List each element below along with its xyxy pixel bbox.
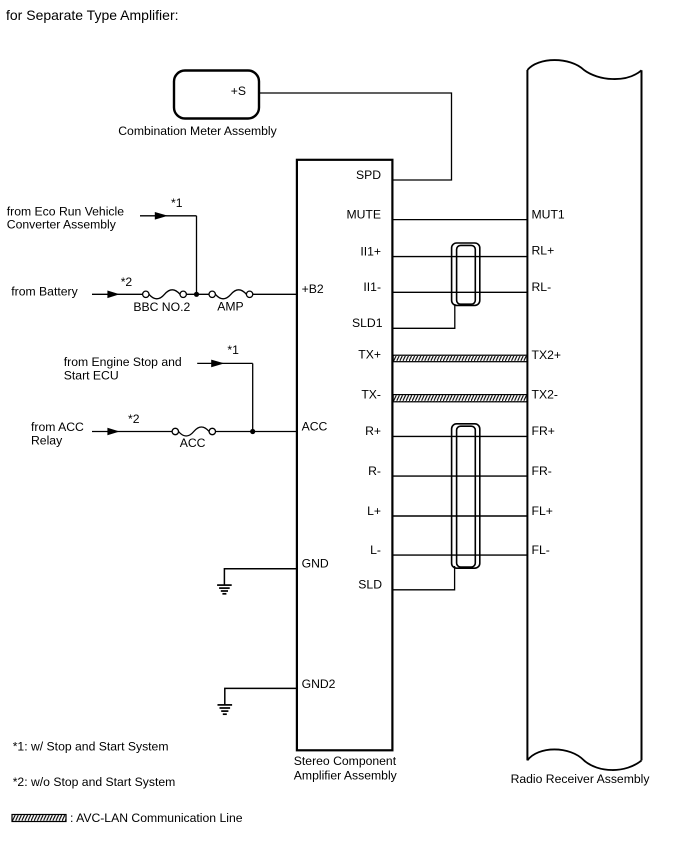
svg-text:+S: +S: [231, 84, 246, 98]
fuse ACC: [172, 427, 215, 436]
svg-text:R+: R+: [365, 424, 381, 438]
svg-text:TX+: TX+: [358, 348, 381, 362]
svg-text:FR+: FR+: [532, 424, 555, 438]
svg-text:*1: w/ Stop and Start System: *1: w/ Stop and Start System: [13, 740, 169, 754]
svg-text:Start ECU: Start ECU: [64, 369, 119, 383]
svg-text:*2: w/o Stop and Start System: *2: w/o Stop and Start System: [13, 775, 176, 789]
wire SLD to shield S2: [393, 566, 455, 590]
ground symbol (GND2): [218, 705, 233, 714]
svg-text:FL+: FL+: [532, 504, 553, 518]
svg-text:SLD1: SLD1: [352, 316, 383, 330]
wire MUTE to MUT1: [393, 219, 527, 221]
arrow from eco run converter: [140, 215, 197, 217]
svg-text:II1+: II1+: [360, 244, 381, 258]
svg-text:Combination Meter Assembly: Combination Meter Assembly: [118, 124, 277, 138]
combination meter assembly box: [174, 71, 259, 119]
svg-text:GND2: GND2: [302, 677, 336, 691]
svg-text:: AVC-LAN Communication Line: : AVC-LAN Communication Line: [70, 811, 243, 825]
svg-text:RL-: RL-: [532, 280, 552, 294]
svg-text:GND: GND: [302, 557, 329, 571]
wire between fuses: [186, 293, 209, 295]
shield S2 around R/L pairs: [452, 424, 480, 568]
wire R- to FR-: [393, 475, 527, 477]
svg-text:BBC NO.2: BBC NO.2: [133, 300, 190, 314]
svg-text:*1: *1: [171, 196, 183, 210]
wire *1 drop to ACC node: [252, 363, 254, 431]
wire L+ to FL+: [393, 515, 527, 517]
stereo component amplifier assembly box U1: [297, 160, 393, 751]
AVC-LAN line TX- to TX2-: [393, 395, 527, 402]
svg-text:FR-: FR-: [532, 464, 552, 478]
node junction at *1/+B2: [194, 292, 199, 297]
wire L- to FL-: [393, 554, 527, 556]
wire SLD1 to shield S1: [393, 304, 455, 328]
svg-text:TX2+: TX2+: [532, 348, 561, 362]
svg-text:+B2: +B2: [302, 282, 324, 296]
wire GND to ground: [224, 569, 297, 585]
svg-text:L+: L+: [367, 504, 381, 518]
wire ACC fuse to ACC pin: [216, 431, 297, 433]
svg-text:II1-: II1-: [363, 280, 381, 294]
svg-text:SLD: SLD: [358, 578, 382, 592]
svg-text:from ACC: from ACC: [31, 420, 84, 434]
svg-text:FL-: FL-: [532, 543, 550, 557]
svg-text:from Battery: from Battery: [11, 285, 78, 299]
node junction at *1/ACC: [250, 429, 255, 434]
svg-text:Amplifier Assembly: Amplifier Assembly: [294, 769, 398, 783]
wire R+ to FR+: [393, 435, 527, 437]
svg-text:from Engine Stop and: from Engine Stop and: [64, 355, 182, 369]
svg-text:*1: *1: [227, 343, 239, 357]
fuse AMP: [209, 290, 253, 299]
svg-text:TX-: TX-: [361, 387, 381, 401]
svg-text:ACC: ACC: [180, 436, 206, 450]
wire AMP fuse to +B2: [253, 293, 297, 295]
arrow from engine stop and start ECU: [197, 362, 253, 364]
shield S1 around II1 pair: [452, 243, 480, 305]
svg-text:Radio Receiver Assembly: Radio Receiver Assembly: [511, 772, 651, 786]
svg-text:MUTE: MUTE: [346, 207, 381, 221]
AVC-LAN line TX+ to TX2+: [393, 355, 527, 362]
svg-text:from Eco Run Vehicle: from Eco Run Vehicle: [7, 205, 124, 219]
svg-text:RL+: RL+: [532, 244, 555, 258]
wire +S to SPD: [259, 93, 451, 180]
svg-text:MUT1: MUT1: [532, 207, 565, 221]
arrow from ACC relay: [92, 431, 172, 433]
svg-text:ACC: ACC: [302, 419, 328, 433]
arrow from battery: [92, 293, 143, 295]
wire II1- to RL-: [393, 291, 527, 293]
svg-text:TX2-: TX2-: [532, 388, 558, 402]
wire GND2 to ground: [225, 688, 297, 704]
svg-text:L-: L-: [370, 543, 381, 557]
wire *1 drop to +B2 node: [196, 216, 198, 294]
svg-text:*2: *2: [121, 275, 133, 289]
svg-text:Stereo Component: Stereo Component: [294, 754, 397, 768]
svg-text:*2: *2: [128, 412, 140, 426]
svg-text:Converter Assembly: Converter Assembly: [7, 218, 117, 232]
svg-text:AMP: AMP: [217, 300, 243, 314]
svg-text:Relay: Relay: [31, 434, 63, 448]
fuse BBC NO.2: [143, 290, 187, 299]
wire II1+ to RL+: [393, 256, 527, 258]
svg-text:SPD: SPD: [356, 168, 381, 182]
svg-text:R-: R-: [368, 464, 381, 478]
svg-text:for Separate Type Amplifier:: for Separate Type Amplifier:: [6, 7, 179, 23]
radio receiver assembly outline: [527, 60, 641, 770]
AVC-LAN legend swatch: [12, 815, 66, 822]
ground symbol (GND): [217, 585, 232, 594]
